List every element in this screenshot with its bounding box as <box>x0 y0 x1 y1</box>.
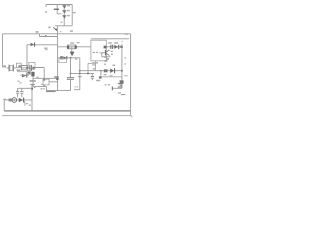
label above D7 <box>114 42 118 44</box>
wire chain start <box>6 67 9 69</box>
wire down from top block <box>57 26 59 37</box>
transistor Q3 pins <box>104 46 110 56</box>
label right of stack <box>36 77 38 78</box>
tick near right border <box>124 75 127 77</box>
junction dot C <box>87 72 89 74</box>
second row wire <box>17 71 27 73</box>
net label dash <box>46 91 56 92</box>
label D3 <box>67 15 70 16</box>
right mid rail <box>71 72 95 74</box>
transformer T1 <box>12 98 17 103</box>
diode stack D1 <box>62 5 66 26</box>
terminal bar on center vertical <box>54 76 59 77</box>
text left of stack <box>17 81 19 82</box>
text below IC box <box>92 62 95 63</box>
capacitor C6 <box>16 88 19 97</box>
label left of box4 <box>41 84 43 85</box>
capacitor C10 at rail end <box>99 70 102 79</box>
box around C8 <box>29 62 35 68</box>
box3 <box>27 71 31 75</box>
polarity arrow blob <box>53 27 55 29</box>
wire bottom rail of top block <box>55 25 72 27</box>
label above C4 <box>108 42 112 44</box>
label above R2 <box>70 42 74 43</box>
emitter return wire <box>74 89 80 91</box>
stack bar lower <box>30 84 35 85</box>
wire cap tops <box>18 87 32 89</box>
capacitor C1 <box>54 5 62 14</box>
junction dot D <box>120 46 122 48</box>
marks under box1 <box>17 69 21 71</box>
label under C10 <box>96 80 100 81</box>
stack bar upper <box>30 80 36 81</box>
wire bottom of right inner <box>112 87 122 89</box>
wire right inner top <box>106 46 122 48</box>
box4 <box>43 79 49 85</box>
label left bottom <box>3 99 6 100</box>
wire right branch of top block <box>71 5 73 26</box>
right border vertical <box>130 34 132 116</box>
label right of tick <box>77 42 80 43</box>
dot above long rail <box>60 31 61 32</box>
rail lower right B <box>102 76 122 78</box>
label on rail B <box>104 74 107 75</box>
capacitor C3 <box>91 73 94 80</box>
bottom left loop left edge <box>3 100 5 111</box>
label D1 <box>67 5 70 6</box>
junction blob at chain end <box>33 67 35 70</box>
capacitor C8 <box>29 65 32 71</box>
zigzag marks below Q3 <box>104 56 107 57</box>
label right of emitter wire <box>75 58 78 59</box>
junction dot A <box>70 73 72 75</box>
plus mark near stack bottom <box>61 22 63 23</box>
diode D8 <box>110 65 115 74</box>
stack down wire <box>33 76 71 90</box>
optocoupler box <box>59 59 67 63</box>
AC source G1 <box>9 65 13 72</box>
wire long left horizontal <box>3 33 131 35</box>
junction dot F <box>26 67 28 69</box>
text mark above center <box>70 30 73 31</box>
colon marks right <box>124 57 126 58</box>
wire box4 to center <box>49 81 58 83</box>
label under D9 <box>26 103 28 104</box>
label under D4 <box>44 48 48 49</box>
wire from chain to corner <box>35 68 45 80</box>
pin labels right of Q3 <box>111 51 113 52</box>
bar below dot B <box>78 76 82 77</box>
bottom main rail <box>4 110 130 112</box>
top supply rail wire <box>46 5 72 8</box>
diode D4 <box>27 43 58 47</box>
tick drop after D9 <box>24 101 26 104</box>
wire Q3 base hook <box>102 53 111 57</box>
label above left wire <box>36 31 39 33</box>
net label tick top-left <box>45 11 47 12</box>
sheet border bottom <box>2 115 132 117</box>
corner tick bottom right <box>131 116 133 117</box>
junction dot B <box>79 70 81 72</box>
drop to bottom rail <box>31 85 33 111</box>
right inner vertical <box>121 41 123 43</box>
text on pin drop <box>93 68 95 69</box>
left mid rail <box>33 77 58 79</box>
diode D2b <box>22 74 27 78</box>
relay pin drop wire <box>88 61 96 74</box>
zener mark <box>118 84 123 87</box>
label L mark <box>24 104 26 105</box>
junction dot G <box>31 88 33 90</box>
wire jog down <box>40 34 58 37</box>
right block top rail <box>91 38 129 40</box>
text left of net dash <box>41 88 43 89</box>
optocoupler input bars <box>60 56 63 59</box>
junction blob under corner <box>43 79 45 81</box>
wire down from D4 <box>26 45 28 68</box>
junction dot E <box>121 70 123 72</box>
wire center vertical <box>57 36 59 90</box>
capacitor C5 <box>120 80 124 84</box>
wire emitter down <box>79 58 81 90</box>
resistor R5 <box>104 69 108 72</box>
junction dot opto <box>70 57 72 59</box>
label top right corner <box>125 33 129 34</box>
label right of top block <box>73 12 76 13</box>
wire left vertical feedback <box>2 34 4 68</box>
mark Q1 label <box>48 27 50 29</box>
text marks near emitter return <box>74 86 75 87</box>
label D2 <box>67 10 70 11</box>
junction blob on center vertical <box>56 78 58 80</box>
second row lower wire <box>20 74 29 76</box>
transistor Q2 <box>70 47 75 56</box>
text marks right bottom <box>105 84 107 85</box>
optocoupler diode D5 <box>63 56 67 60</box>
wire mid horizontal to right block <box>58 46 91 48</box>
resistor R1 <box>21 66 30 70</box>
diode D7 <box>114 45 119 49</box>
wire chain <box>13 67 16 69</box>
IC box U1 <box>91 40 106 61</box>
bottom component row wire <box>4 99 32 101</box>
stack blob <box>31 72 34 77</box>
capacitor C4 <box>110 45 113 49</box>
main chain AC label <box>3 65 6 67</box>
capacitor C7 <box>20 88 23 97</box>
resistor R4 <box>9 99 12 102</box>
diode D9 <box>19 98 24 103</box>
plate end bar <box>112 86 113 90</box>
rail lower right A <box>80 70 122 72</box>
box1 input filter <box>16 63 21 67</box>
wire through opto <box>58 57 80 59</box>
capacitor C2 <box>67 58 74 91</box>
label above mid wire <box>45 35 47 36</box>
resistor R2 <box>67 45 77 49</box>
net squiggle <box>118 93 126 95</box>
